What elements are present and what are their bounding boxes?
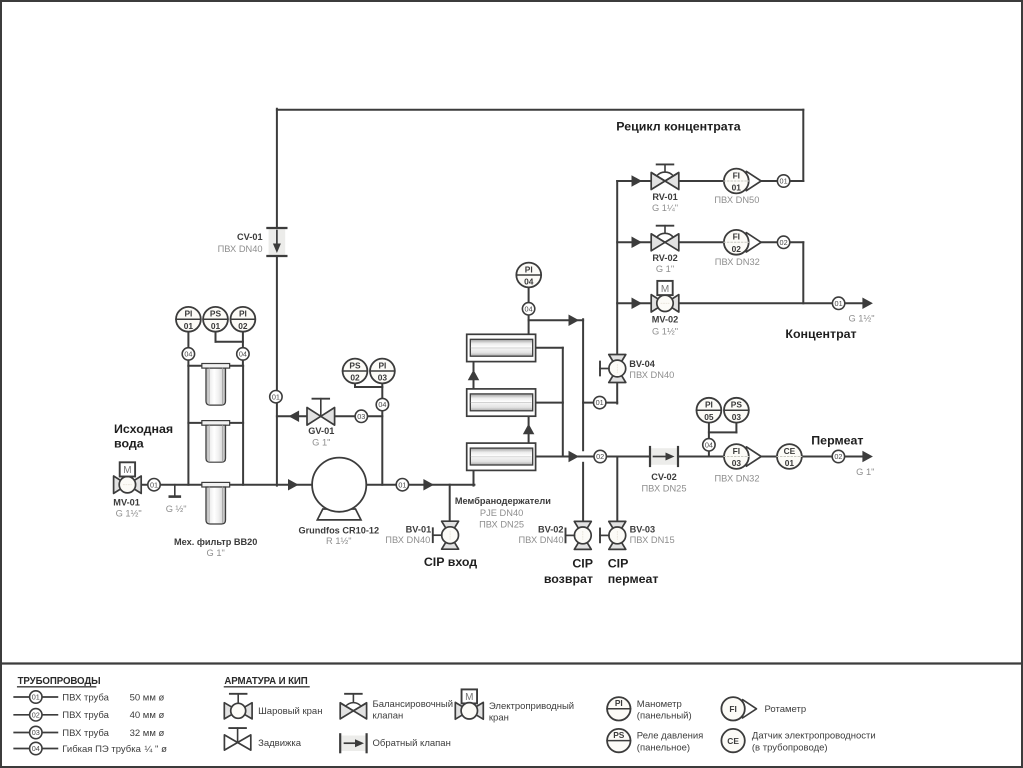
svg-text:ПВХ DN40: ПВХ DN40 [518,535,563,545]
svg-text:Рецикл концентрата: Рецикл концентрата [616,119,740,133]
svg-text:04: 04 [239,350,247,359]
svg-text:Манометр: Манометр [637,699,682,710]
svg-text:Мех. фильтр BB20: Мех. фильтр BB20 [174,537,257,547]
svg-text:кран: кран [489,713,509,724]
svg-text:клапан: клапан [373,711,404,722]
svg-text:PI: PI [615,698,623,708]
svg-text:01: 01 [780,177,788,186]
svg-text:04: 04 [524,277,534,287]
svg-text:CE: CE [727,736,739,746]
svg-text:04: 04 [378,400,386,409]
svg-text:CIP: CIP [608,556,629,570]
svg-text:вода: вода [114,437,144,451]
svg-text:G 1¼": G 1¼" [652,203,678,213]
svg-text:02: 02 [732,244,742,254]
svg-text:MV-02: MV-02 [652,315,679,325]
svg-text:ПВХ DN32: ПВХ DN32 [714,474,759,484]
svg-text:40 мм ø: 40 мм ø [130,710,165,721]
svg-text:Исходная: Исходная [114,422,173,436]
svg-text:ПВХ DN40: ПВХ DN40 [218,244,263,254]
svg-text:01: 01 [272,392,280,401]
svg-text:MV-01: MV-01 [113,498,140,508]
svg-text:(панельный): (панельный) [637,711,692,722]
svg-text:PJE DN40: PJE DN40 [480,508,523,518]
svg-text:Шаровый кран: Шаровый кран [258,706,322,717]
svg-text:Задвижка: Задвижка [258,738,302,749]
svg-text:01: 01 [184,321,194,331]
svg-text:01: 01 [596,398,604,407]
svg-text:PI: PI [525,264,533,274]
svg-text:01: 01 [835,299,843,308]
svg-text:(в трубопроводе): (в трубопроводе) [752,742,828,753]
svg-text:04: 04 [525,304,533,313]
svg-text:G ½": G ½" [166,504,187,514]
svg-text:G 1": G 1" [207,548,225,558]
svg-text:PS: PS [210,309,222,319]
svg-text:BV-01: BV-01 [406,524,432,534]
svg-text:PI: PI [239,309,247,319]
svg-text:Датчик электропроводности: Датчик электропроводности [752,731,876,742]
svg-text:ПВХ DN40: ПВХ DN40 [385,535,430,545]
svg-text:Обратный клапан: Обратный клапан [373,738,451,749]
svg-text:Электроприводный: Электроприводный [489,701,574,712]
svg-text:Ротаметр: Ротаметр [765,704,807,715]
svg-text:03: 03 [378,373,388,383]
svg-text:¼ " ø: ¼ " ø [145,744,168,755]
svg-text:CV-02: CV-02 [651,472,677,482]
svg-text:02: 02 [834,452,842,461]
svg-text:03: 03 [732,458,742,468]
svg-text:ПВХ DN25: ПВХ DN25 [479,520,524,530]
svg-text:PS: PS [349,360,361,370]
svg-text:CIP: CIP [572,556,593,570]
svg-text:АРМАТУРА И КИП: АРМАТУРА И КИП [224,676,307,687]
svg-text:ПВХ DN40: ПВХ DN40 [629,370,674,380]
svg-text:BV-03: BV-03 [630,524,656,534]
svg-text:01: 01 [398,480,406,489]
svg-text:04: 04 [184,350,192,359]
svg-text:Гибкая ПЭ трубка: Гибкая ПЭ трубка [62,744,141,755]
svg-text:RV-01: RV-01 [652,192,677,202]
svg-text:FI: FI [733,170,740,180]
svg-text:пермеат: пермеат [608,572,659,586]
svg-text:ПВХ труба: ПВХ труба [62,728,109,739]
svg-text:PS: PS [731,400,743,410]
svg-text:возврат: возврат [544,572,593,586]
svg-text:ПВХ труба: ПВХ труба [62,692,109,703]
svg-text:G 1": G 1" [312,438,330,448]
svg-text:GV-01: GV-01 [308,426,334,436]
svg-text:Реле давления: Реле давления [637,731,704,742]
svg-text:ПВХ труба: ПВХ труба [62,710,109,721]
svg-text:RV-02: RV-02 [652,253,677,263]
svg-text:02: 02 [238,321,248,331]
svg-text:Grundfos CR10-12: Grundfos CR10-12 [298,525,379,535]
svg-text:02: 02 [350,373,360,383]
svg-text:01: 01 [32,693,40,702]
svg-text:Мембранодержатели: Мембранодержатели [455,496,551,506]
svg-text:04: 04 [32,744,40,753]
svg-text:FI: FI [733,232,740,242]
svg-text:G 1½": G 1½" [848,313,874,323]
svg-text:02: 02 [596,452,604,461]
svg-text:BV-04: BV-04 [629,359,655,369]
svg-text:02: 02 [780,238,788,247]
svg-text:CV-01: CV-01 [237,232,263,242]
svg-text:G 1½": G 1½" [652,326,678,336]
svg-text:05: 05 [704,412,714,422]
svg-text:01: 01 [150,480,158,489]
svg-text:Балансировочный: Балансировочный [373,699,454,710]
svg-text:01: 01 [785,458,795,468]
svg-text:BV-02: BV-02 [538,524,564,534]
svg-text:(панельное): (панельное) [637,742,690,753]
svg-text:03: 03 [357,412,365,421]
svg-text:M: M [123,465,131,476]
svg-text:PI: PI [184,309,192,319]
svg-text:04: 04 [705,440,713,449]
svg-text:32 мм ø: 32 мм ø [130,728,165,739]
svg-text:ПВХ DN25: ПВХ DN25 [641,484,686,494]
svg-text:G 1½": G 1½" [116,509,142,519]
svg-text:PS: PS [613,730,625,740]
svg-text:G 1": G 1" [856,467,874,477]
svg-text:02: 02 [32,710,40,719]
svg-text:CE: CE [784,446,796,456]
svg-text:03: 03 [732,412,742,422]
svg-text:FI: FI [729,704,736,714]
svg-text:CIP вход: CIP вход [424,555,477,569]
svg-text:03: 03 [32,728,40,737]
svg-text:Концентрат: Концентрат [785,327,856,341]
svg-text:PI: PI [705,400,713,410]
svg-text:ПВХ DN50: ПВХ DN50 [714,195,759,205]
svg-text:ТРУБОПРОВОДЫ: ТРУБОПРОВОДЫ [18,676,101,687]
svg-text:Пермеат: Пермеат [811,434,863,448]
svg-text:50 мм ø: 50 мм ø [130,692,165,703]
svg-text:R 1½": R 1½" [326,536,352,546]
svg-text:M: M [465,692,473,703]
svg-text:FI: FI [733,446,740,456]
svg-text:M: M [661,284,669,295]
svg-text:ПВХ DN32: ПВХ DN32 [715,257,760,267]
svg-text:01: 01 [732,183,742,193]
svg-text:ПВХ DN15: ПВХ DN15 [630,535,675,545]
svg-text:G 1": G 1" [656,264,674,274]
svg-text:01: 01 [211,321,221,331]
svg-text:PI: PI [378,360,386,370]
